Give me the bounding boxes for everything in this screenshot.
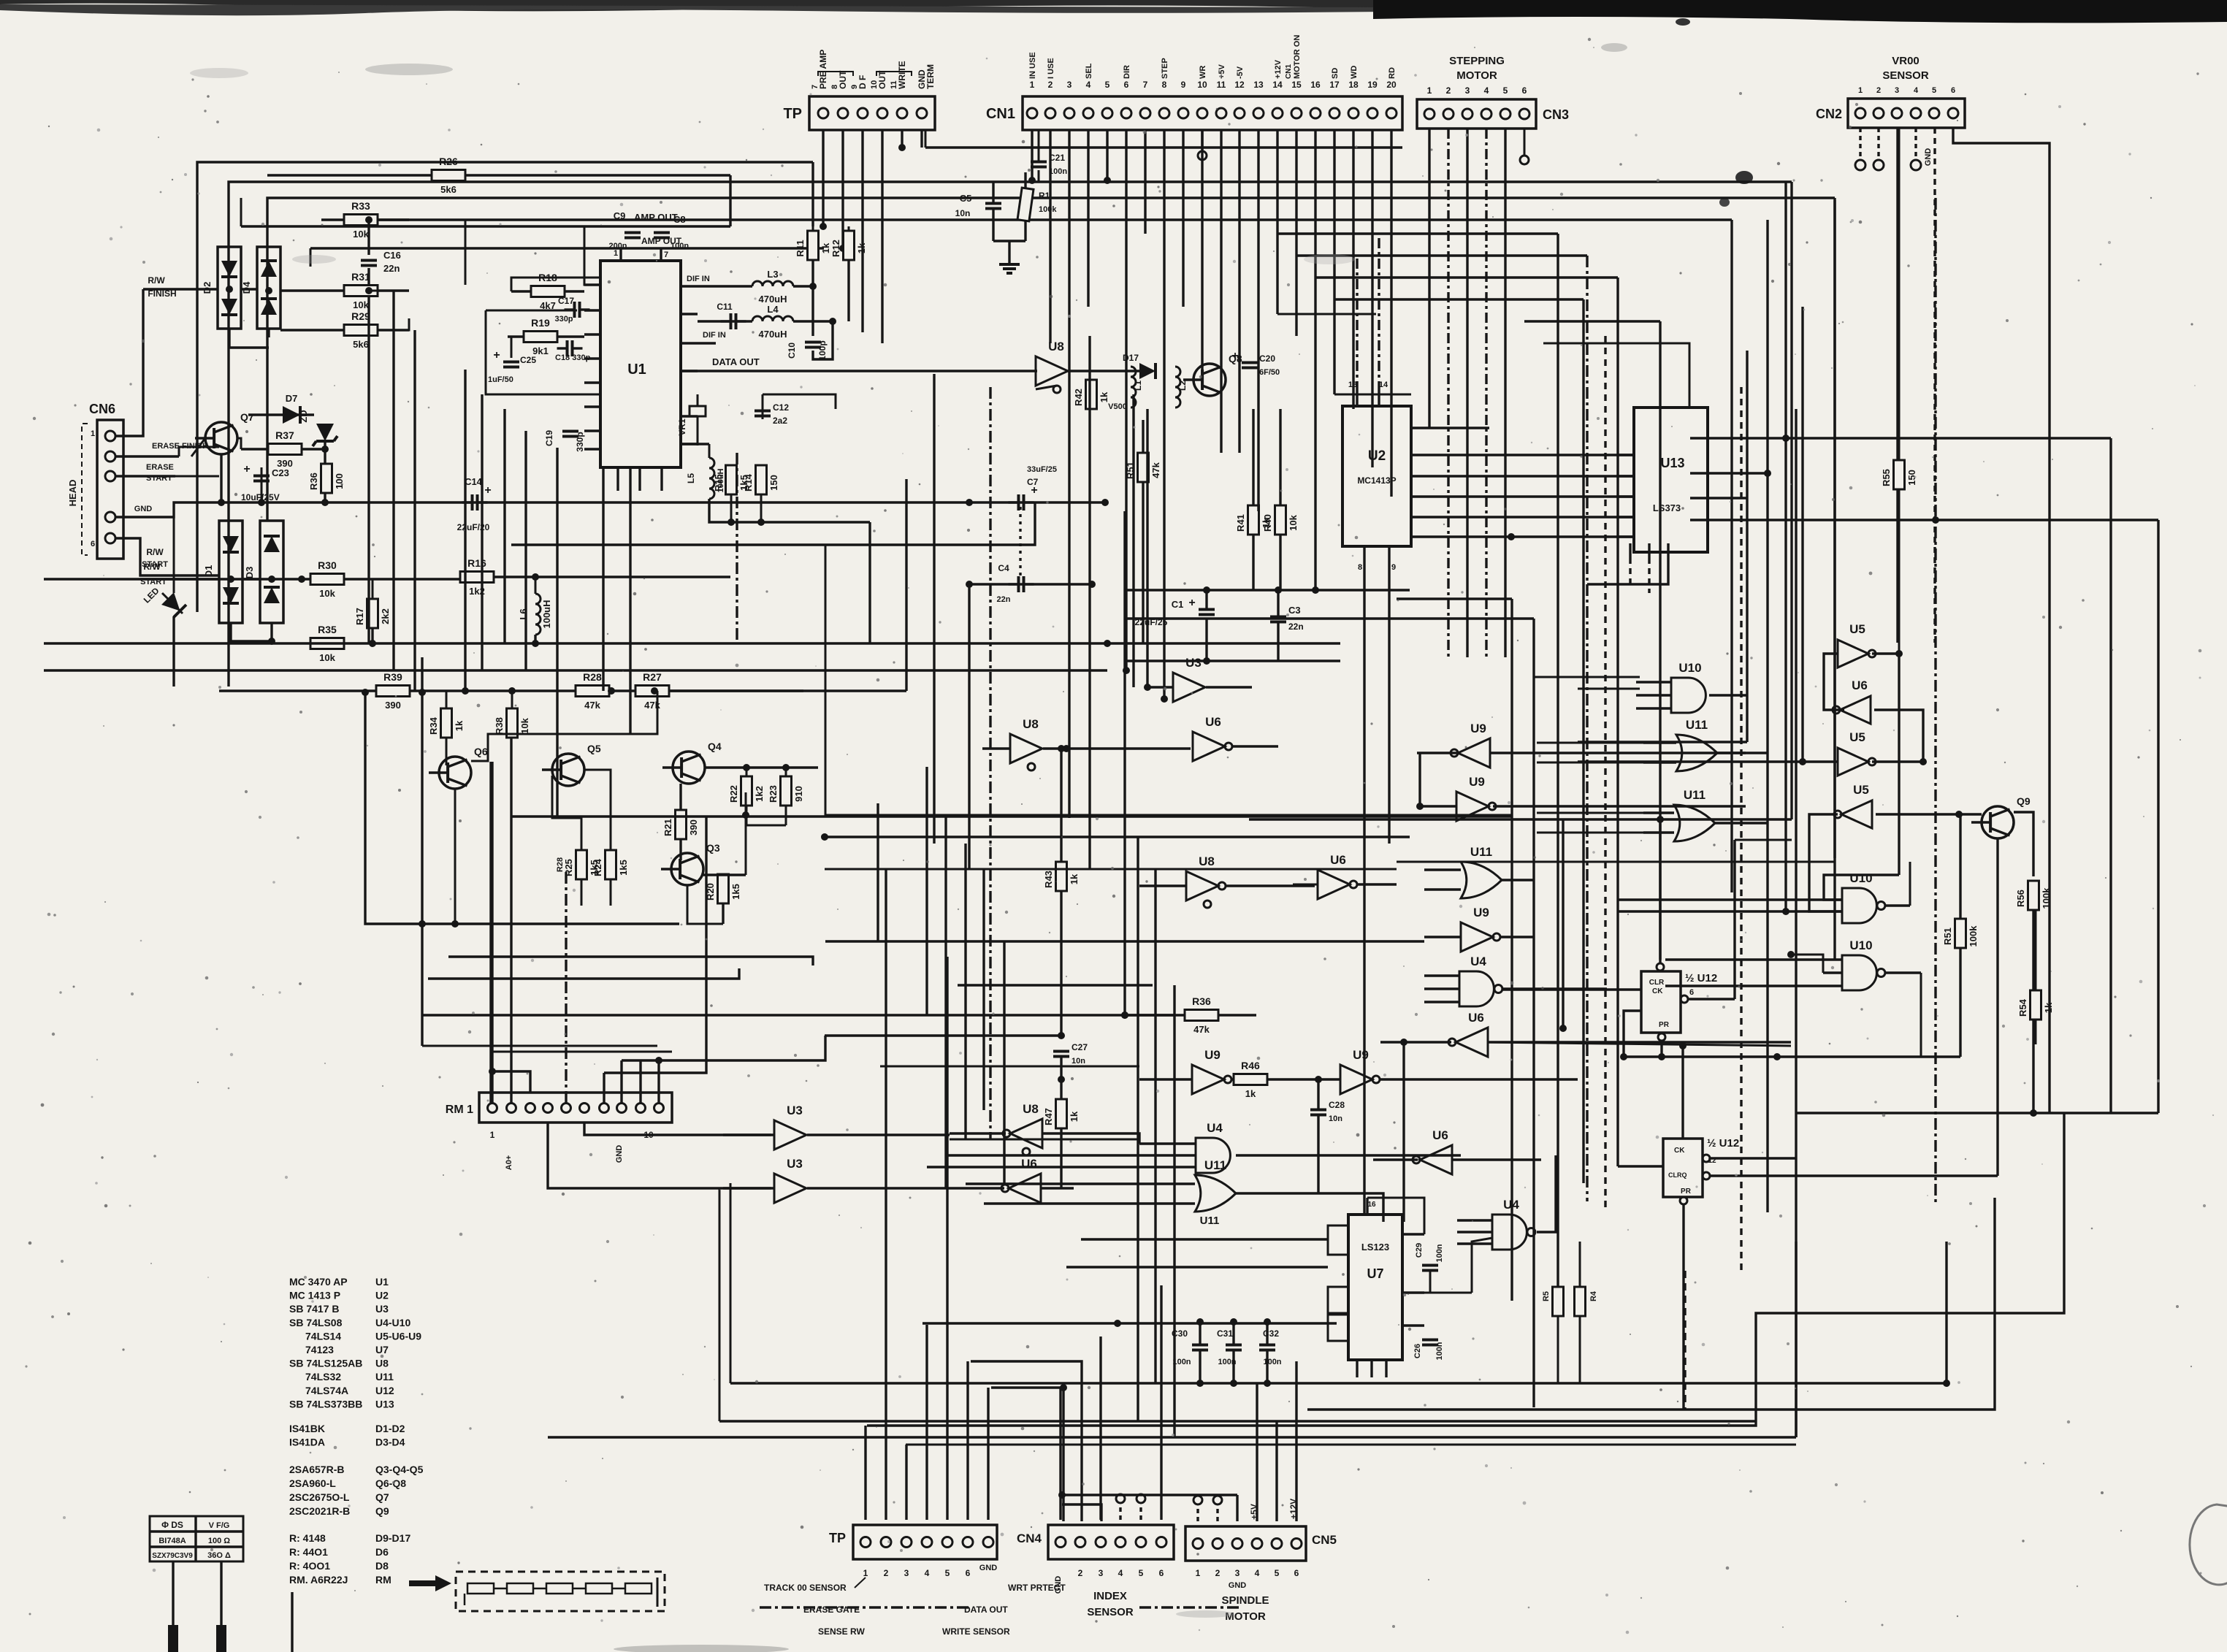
svg-text:R23: R23 xyxy=(768,785,779,803)
inverter U6 d xyxy=(1318,870,1350,899)
resistor R27 xyxy=(635,686,669,697)
svg-text:6: 6 xyxy=(1294,1568,1299,1578)
svg-text:SENSE RW: SENSE RW xyxy=(818,1626,865,1637)
svg-text:START: START xyxy=(142,560,168,569)
svg-text:U6: U6 xyxy=(1432,1128,1448,1142)
wire DATA OUT onward xyxy=(1068,370,1139,372)
wire nest bottom-right 2 xyxy=(1685,1198,1995,1410)
resistor R23 xyxy=(781,776,792,806)
svg-text:DATA OUT: DATA OUT xyxy=(712,356,760,367)
svg-text:IS41BK: IS41BK xyxy=(289,1423,325,1434)
svg-text:SD: SD xyxy=(1331,68,1340,79)
svg-text:1k: 1k xyxy=(2043,1002,2054,1013)
resistor R18 (4k7) xyxy=(531,286,565,297)
transistor Q5 xyxy=(552,754,584,786)
svg-text:15: 15 xyxy=(1291,80,1302,90)
svg-text:+: + xyxy=(1188,597,1195,609)
svg-text:100n: 100n xyxy=(1435,1342,1444,1360)
svg-text:WRITE SENSOR: WRITE SENSOR xyxy=(942,1626,1010,1637)
svg-text:47k: 47k xyxy=(1193,1024,1210,1035)
svg-text:PRE AMP: PRE AMP xyxy=(818,50,828,89)
wire central dash-dot verticals xyxy=(736,453,738,643)
wire y746 mid xyxy=(511,502,1035,545)
svg-text:C16: C16 xyxy=(383,250,401,261)
svg-text:TP: TP xyxy=(783,106,802,122)
inverter U3 c xyxy=(774,1120,806,1150)
svg-text:5k6: 5k6 xyxy=(353,339,369,350)
svg-text:DIF IN: DIF IN xyxy=(703,331,726,340)
wire U1 left loop xyxy=(511,278,600,291)
wire Q6 collector loop xyxy=(471,691,657,761)
wire left verticals to RM1 area xyxy=(421,657,423,1046)
diode D7 xyxy=(248,413,314,416)
svg-text:100n: 100n xyxy=(1263,1358,1281,1366)
svg-text:R12: R12 xyxy=(830,240,841,257)
wire nest bottom-right 1 xyxy=(1307,1113,2064,1426)
wire nest bottom-right 5 xyxy=(1684,1271,1686,1410)
svg-text:6: 6 xyxy=(1159,1568,1164,1578)
svg-text:U5: U5 xyxy=(1849,730,1865,744)
svg-text:11: 11 xyxy=(1217,80,1226,90)
inverter U6 a (right column) xyxy=(1840,696,1871,724)
zener diode ZD1 xyxy=(313,424,337,446)
svg-text:910: 910 xyxy=(793,786,804,802)
connector TP (top test points) xyxy=(809,96,935,130)
svg-text:C27: C27 xyxy=(1072,1042,1088,1052)
capacitor C29 (100n) xyxy=(1422,1264,1438,1267)
svg-text:5k6: 5k6 xyxy=(440,184,457,195)
svg-text:1k5: 1k5 xyxy=(618,860,629,876)
svg-text:2a2: 2a2 xyxy=(773,416,787,426)
wire bus y1447 xyxy=(1624,1055,1960,1058)
wire erase to Q7 base xyxy=(179,446,205,448)
wire CN3 pins down xyxy=(1428,129,1430,428)
svg-text:LS373: LS373 xyxy=(1653,502,1681,513)
wires TP pins down xyxy=(822,130,824,226)
svg-text:5: 5 xyxy=(1932,86,1936,95)
svg-text:7: 7 xyxy=(1143,80,1148,90)
svg-text:ERASE GATE: ERASE GATE xyxy=(803,1605,860,1615)
capacitor C28 (10n) xyxy=(1310,1109,1326,1112)
svg-text:LS123: LS123 xyxy=(1361,1242,1389,1253)
svg-text:18: 18 xyxy=(1348,80,1359,90)
svg-text:7: 7 xyxy=(664,251,668,259)
svg-text:C32: C32 xyxy=(1263,1328,1279,1339)
wire y808 node row xyxy=(1125,589,1410,591)
svg-text:16: 16 xyxy=(1367,1201,1376,1209)
inverter U3 d xyxy=(774,1174,806,1203)
svg-text:D6: D6 xyxy=(375,1546,389,1558)
svg-text:1k: 1k xyxy=(1099,391,1109,402)
buffer U8 (near DATA OUT) xyxy=(1036,356,1068,386)
svg-text:1: 1 xyxy=(490,1130,495,1140)
svg-text:RM. A6R22J: RM. A6R22J xyxy=(289,1574,348,1586)
resistor R26 xyxy=(267,174,730,176)
svg-text:100p: 100p xyxy=(817,340,828,360)
svg-text:2: 2 xyxy=(1215,1568,1221,1578)
wires TP bottom pins up xyxy=(864,1426,866,1520)
resistor R16 xyxy=(460,572,494,583)
svg-text:10n: 10n xyxy=(955,208,971,218)
svg-text:1: 1 xyxy=(1427,85,1432,96)
resistor R33 xyxy=(321,218,409,221)
resistor R42 xyxy=(1086,380,1097,409)
wire U6a input loop xyxy=(1874,710,1923,762)
svg-text:R16: R16 xyxy=(467,557,486,569)
wire bottom bus y1968 xyxy=(548,1436,1796,1438)
svg-text:U3: U3 xyxy=(375,1303,389,1315)
resistor R11 xyxy=(808,231,819,260)
monostable IC U7 (74123/LS123) xyxy=(1348,1215,1402,1360)
svg-text:R46: R46 xyxy=(1241,1060,1260,1071)
svg-text:TP: TP xyxy=(829,1531,846,1545)
svg-text:DIR: DIR xyxy=(1123,65,1131,79)
wire R54 node xyxy=(2030,1109,2037,1117)
svg-text:R54: R54 xyxy=(2017,998,2028,1017)
svg-text:I USE: I USE xyxy=(1047,58,1055,79)
svg-text:R29: R29 xyxy=(351,310,370,322)
wire AMP OUT-bar xyxy=(310,247,824,249)
inverter U6 gate a (mid) xyxy=(1193,732,1225,761)
diode option table xyxy=(150,1516,243,1561)
wire U7 right loop xyxy=(1367,1198,1424,1234)
svg-text:Q4: Q4 xyxy=(708,741,722,752)
svg-text:R24: R24 xyxy=(592,858,603,876)
svg-text:6F/50: 6F/50 xyxy=(1259,368,1280,377)
wire R26 right corner down xyxy=(729,175,731,226)
svg-text:C26: C26 xyxy=(1413,1344,1422,1358)
svg-text:IN USE: IN USE xyxy=(1028,52,1037,79)
wires U2 outputs to U13 xyxy=(1411,454,1634,456)
svg-text:470uH: 470uH xyxy=(758,294,787,305)
wire Q5 net xyxy=(552,776,581,850)
svg-text:1uF/50: 1uF/50 xyxy=(488,375,513,384)
svg-text:U4: U4 xyxy=(1470,955,1486,968)
scan smudges xyxy=(365,64,453,75)
wire nest bottom-right 3 xyxy=(1945,1242,1947,1383)
inverter U9 e xyxy=(1461,922,1493,952)
svg-text:R37: R37 xyxy=(275,429,294,441)
svg-text:SZX79C3V9: SZX79C3V9 xyxy=(152,1552,193,1560)
svg-text:D7: D7 xyxy=(286,393,298,404)
svg-text:1k5: 1k5 xyxy=(730,884,741,900)
resistor R46 (1k) xyxy=(1234,1074,1267,1085)
svg-text:LED: LED xyxy=(142,586,161,605)
wire TP pin7 arch to CN4 pin1 xyxy=(991,1388,1063,1521)
resistor R30 xyxy=(310,574,344,585)
resistor R40 xyxy=(1275,505,1286,535)
wire right vertical dashed group B xyxy=(1740,387,1742,1271)
svg-text:U9: U9 xyxy=(1204,1048,1221,1062)
svg-text:+: + xyxy=(484,484,491,497)
resistor R43 (1k) column xyxy=(1056,862,1067,891)
AND gate U4 a xyxy=(1459,971,1494,1006)
svg-text:A0+: A0+ xyxy=(505,1155,513,1171)
wire top-left outer loop xyxy=(197,162,813,612)
inverter U6 e xyxy=(1420,1145,1452,1174)
svg-text:6: 6 xyxy=(1951,86,1955,95)
svg-text:C11: C11 xyxy=(717,302,733,312)
svg-text:5: 5 xyxy=(1275,1568,1280,1578)
wire cap top rail xyxy=(922,1322,1337,1324)
wire CN6 pin2 ERASE FINISH xyxy=(115,455,179,457)
wire Q4 base row xyxy=(705,766,818,768)
capacitor C9 (200n) xyxy=(624,232,641,234)
svg-text:R27: R27 xyxy=(643,671,662,683)
varactor VR1 xyxy=(690,406,706,416)
svg-text:10k: 10k xyxy=(1288,514,1299,530)
svg-text:U5: U5 xyxy=(1853,783,1869,797)
svg-text:C25: C25 xyxy=(520,355,536,365)
svg-text:100n: 100n xyxy=(1049,167,1067,176)
svg-text:R31: R31 xyxy=(351,271,370,283)
svg-text:U2: U2 xyxy=(1368,448,1386,464)
wire mid horizontals 1460 xyxy=(880,1066,1139,1068)
capacitor C23 (10uF/25V) xyxy=(253,475,270,478)
transistor Q6 xyxy=(439,757,471,789)
inverter U9 a xyxy=(1458,738,1490,768)
wire left vertical bundle (upper mid) xyxy=(367,314,370,643)
wire R37 to ZD/R36 node xyxy=(302,448,325,451)
svg-text:10k: 10k xyxy=(319,588,335,599)
svg-text:U11: U11 xyxy=(1686,718,1708,732)
resistor R21 (390) xyxy=(676,810,687,839)
svg-text:2: 2 xyxy=(884,1568,889,1578)
svg-text:WR: WR xyxy=(1199,66,1207,79)
svg-text:Q7: Q7 xyxy=(375,1491,389,1503)
svg-text:MC 3470 AP: MC 3470 AP xyxy=(289,1276,348,1288)
resistor R15 (1k5) xyxy=(726,465,737,494)
svg-text:C5: C5 xyxy=(960,193,972,204)
inverter U6 f xyxy=(1009,1174,1041,1203)
wire C7-C4 dash link xyxy=(1019,507,1021,580)
transistor Q7 xyxy=(205,422,237,454)
wire bottom bus y1894 xyxy=(730,1382,1947,1384)
diode D17 xyxy=(1139,363,1155,379)
svg-text:U9: U9 xyxy=(1473,906,1489,919)
svg-text:U10: U10 xyxy=(1678,661,1701,675)
svg-text:1k2: 1k2 xyxy=(754,786,765,802)
svg-text:D2: D2 xyxy=(202,282,213,294)
svg-text:U6: U6 xyxy=(1205,715,1221,729)
diode bridge D1 xyxy=(219,521,242,623)
svg-text:U11: U11 xyxy=(1204,1158,1226,1172)
svg-text:47k: 47k xyxy=(584,700,600,711)
svg-text:U9: U9 xyxy=(1469,775,1485,789)
wire DATA OUT from U1 xyxy=(681,370,1037,372)
resistor R29 xyxy=(280,329,409,331)
svg-text:GND: GND xyxy=(1924,148,1933,167)
svg-text:10: 10 xyxy=(1197,80,1207,90)
svg-text:100k: 100k xyxy=(1968,925,1979,947)
wire CN3 pin6 loop xyxy=(1524,129,1526,156)
resistor R56 (100k) xyxy=(2028,881,2039,910)
svg-text:2: 2 xyxy=(1078,1568,1083,1578)
wire U2 pin K to CN3 column xyxy=(1411,427,1489,429)
svg-text:C20: C20 xyxy=(1259,353,1275,364)
wire U9 pair link xyxy=(1418,753,1421,806)
wire R16 right xyxy=(494,575,730,578)
svg-text:4: 4 xyxy=(1914,86,1919,95)
svg-text:U8: U8 xyxy=(1023,1102,1039,1116)
svg-text:2SA960-L: 2SA960-L xyxy=(289,1477,336,1489)
svg-text:PR: PR xyxy=(1659,1021,1670,1029)
svg-text:CN2: CN2 xyxy=(1816,107,1842,121)
flip-flop 1/2 U12 b xyxy=(1663,1139,1703,1197)
capacitor C14 (22uF/20) xyxy=(462,501,473,503)
svg-text:+: + xyxy=(243,463,250,475)
svg-text:11: 11 xyxy=(890,80,898,89)
wires VR1/L5/R15/R14 net xyxy=(681,443,709,445)
resistor R47 (1k) xyxy=(1056,1099,1067,1128)
svg-text:SEL: SEL xyxy=(1085,63,1093,79)
svg-text:390: 390 xyxy=(385,700,401,711)
resistor R28 xyxy=(576,686,609,697)
inverter U8 e xyxy=(1010,1119,1042,1148)
svg-text:U13: U13 xyxy=(375,1398,394,1410)
svg-text:9: 9 xyxy=(1181,80,1186,90)
svg-text:GND: GND xyxy=(134,505,153,513)
svg-text:1k: 1k xyxy=(856,242,867,253)
svg-text:22n: 22n xyxy=(997,595,1011,604)
svg-text:CN1: CN1 xyxy=(986,106,1015,122)
wire bridge D4 to R29 xyxy=(267,329,270,337)
resistor R37 xyxy=(241,448,321,450)
wire verticals central-bottom xyxy=(1123,661,1126,1015)
wire Q7 collector to R37 xyxy=(237,438,241,449)
svg-text:C12: C12 xyxy=(773,402,789,413)
wire U5a out vertical down xyxy=(1898,654,1900,875)
svg-text:10n: 10n xyxy=(1072,1057,1085,1066)
svg-text:CK: CK xyxy=(1652,987,1663,995)
scan artifact top edge xyxy=(0,0,1388,11)
wire staircase CN1 to U2 top xyxy=(1277,313,1376,316)
wire CN1 junction dots xyxy=(1028,177,1036,184)
svg-text:1k: 1k xyxy=(820,242,831,253)
svg-text:L6: L6 xyxy=(518,608,529,619)
connector CN5 (spindle motor) xyxy=(1185,1526,1306,1561)
connector CN1 (interface, 20 pins) xyxy=(1023,96,1402,130)
svg-text:SB 74LS08: SB 74LS08 xyxy=(289,1317,343,1328)
wire y1952 bus left part xyxy=(867,1424,1307,1426)
svg-text:U13: U13 xyxy=(1660,456,1684,470)
svg-text:9: 9 xyxy=(850,85,859,89)
inverter U5 a (right column) xyxy=(1838,640,1868,668)
wire bus y247 xyxy=(824,180,1792,183)
svg-text:R/W: R/W xyxy=(146,547,164,557)
svg-text:R38: R38 xyxy=(494,717,505,735)
svg-text:3: 3 xyxy=(1895,86,1899,95)
capacitor C26 (100n) xyxy=(1422,1339,1438,1342)
svg-text:U4-U10: U4-U10 xyxy=(375,1317,410,1328)
svg-text:14: 14 xyxy=(1379,381,1388,389)
svg-text:Q3: Q3 xyxy=(706,842,720,854)
capacitor C16 xyxy=(361,259,377,262)
svg-text:BI748A: BI748A xyxy=(158,1537,186,1545)
capacitor C32 xyxy=(1259,1344,1275,1347)
resistor R51 (100k) xyxy=(1955,919,1966,948)
svg-text:U6: U6 xyxy=(1330,853,1346,867)
wire Q9 emitter to R56 xyxy=(2014,812,2033,876)
svg-text:ZD: ZD xyxy=(298,410,309,422)
transistor Q8 xyxy=(1193,364,1226,396)
wire staircase CN1 pins 13-16 to right bundle xyxy=(1277,232,1558,234)
svg-text:C18 330p: C18 330p xyxy=(555,353,591,362)
latch IC U13 (LS373) xyxy=(1634,408,1708,552)
svg-text:U3: U3 xyxy=(787,1104,803,1117)
diode bridge D3 xyxy=(260,521,283,623)
wire DIF IN lower xyxy=(698,342,716,344)
svg-text:100: 100 xyxy=(334,473,345,489)
wire R33 row down to C16 xyxy=(465,220,467,285)
resistor R14 (150) xyxy=(756,465,767,494)
svg-text:R47: R47 xyxy=(1043,1108,1054,1125)
svg-text:1: 1 xyxy=(1030,80,1035,90)
resistor R34 xyxy=(441,708,452,738)
svg-text:R: 4OO1: R: 4OO1 xyxy=(289,1560,330,1572)
wire CN4 pin1 jogs xyxy=(1062,1494,1237,1496)
wire Q7 emitter down to GND bus xyxy=(220,454,222,502)
svg-text:STEP: STEP xyxy=(1161,58,1169,79)
svg-text:R4: R4 xyxy=(1589,1290,1598,1301)
svg-text:D3: D3 xyxy=(244,567,255,579)
svg-text:C21: C21 xyxy=(1049,153,1065,163)
svg-text:5: 5 xyxy=(1139,1568,1144,1578)
wire AMP OUT xyxy=(584,226,730,285)
NAND gate U10 b xyxy=(1671,678,1705,713)
svg-text:1k: 1k xyxy=(454,720,465,731)
wire U5b input line xyxy=(1578,760,1838,762)
AND gate U4 c xyxy=(1492,1215,1527,1250)
svg-text:RM: RM xyxy=(375,1574,391,1586)
capacitor C30 xyxy=(1192,1344,1208,1347)
svg-text:R39: R39 xyxy=(383,671,402,683)
wire left edge to R30 xyxy=(44,578,310,580)
OR gate U11 f xyxy=(1461,862,1502,898)
svg-text:R15: R15 xyxy=(713,474,724,492)
svg-text:U11: U11 xyxy=(375,1371,394,1383)
svg-text:4: 4 xyxy=(1484,85,1489,96)
svg-text:2: 2 xyxy=(1446,85,1451,96)
wire CN2 pin6 to right vertical xyxy=(1953,128,2050,1113)
svg-text:7: 7 xyxy=(811,85,820,89)
svg-text:R21: R21 xyxy=(662,819,673,836)
svg-text:RM 1: RM 1 xyxy=(446,1104,473,1116)
wire R30 to R16 xyxy=(344,578,460,580)
svg-text:R40: R40 xyxy=(1262,514,1273,532)
svg-text:C4: C4 xyxy=(998,563,1009,573)
svg-text:4: 4 xyxy=(1255,1568,1260,1578)
resistor R54 (1k) xyxy=(2031,990,2041,1020)
wire y905 gnd row xyxy=(1125,659,1340,662)
wire CN6 pin5 GND bus xyxy=(115,502,969,517)
svg-text:D4: D4 xyxy=(241,281,252,294)
wires RM1 pins up xyxy=(491,762,493,1103)
U13 left pin stubs xyxy=(1616,454,1634,456)
wire CN2 pin3 down xyxy=(1896,128,1898,643)
wire TP pin6 arch to CN4 pin2 xyxy=(971,1361,1082,1521)
svg-text:R14: R14 xyxy=(743,473,754,492)
wire R39 row xyxy=(219,689,379,692)
wire y1310 bus xyxy=(448,957,813,965)
wire Q6 emitter down xyxy=(365,692,679,924)
svg-text:C31: C31 xyxy=(1217,1328,1233,1339)
wire horizontal y820 right xyxy=(1397,597,1512,600)
wire bus y271 xyxy=(628,196,1835,199)
svg-text:4: 4 xyxy=(925,1568,930,1578)
LED D5 xyxy=(161,592,186,617)
wire R/W START into D1/D3 xyxy=(140,578,219,580)
